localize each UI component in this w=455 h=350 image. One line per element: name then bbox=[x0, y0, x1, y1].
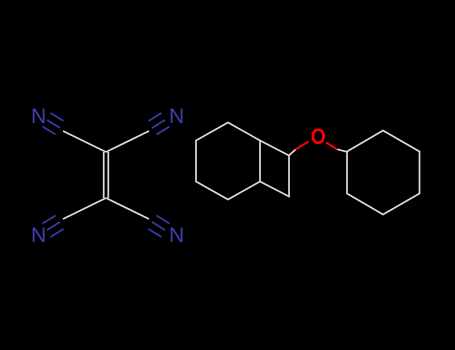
bond bridge-C to O (white half) bbox=[289, 150, 296, 156]
cyclohexane ring A bbox=[196, 123, 260, 200]
triple bond C#N lower-left bbox=[43, 216, 64, 238]
bond C1 to cyano carbon (upper-left) bbox=[63, 131, 106, 152]
bond C2 to cyano carbon (lower-right) bbox=[106, 198, 149, 219]
svg-text:N: N bbox=[169, 223, 184, 247]
bond C2 to cyano carbon (lower-left) bbox=[63, 198, 106, 219]
cyclohexane ring C bbox=[347, 131, 420, 215]
svg-text:N: N bbox=[31, 104, 46, 128]
bond C1 to cyano carbon (upper-right) bbox=[106, 131, 149, 152]
triple bond C#N upper-right bbox=[149, 113, 170, 135]
triple bond C#N lower-right bbox=[149, 216, 170, 238]
bond bridge-C to O (red half at O) bbox=[296, 142, 309, 150]
triple bond C#N upper-left bbox=[43, 113, 64, 135]
svg-text:N: N bbox=[31, 223, 46, 247]
bond O to ring C (white half) bbox=[337, 149, 347, 152]
svg-text:O: O bbox=[311, 124, 326, 149]
svg-text:N: N bbox=[169, 104, 184, 128]
bond O to ring C (red half at O) bbox=[326, 143, 337, 150]
TCNE central C=C double bond bbox=[104, 152, 109, 198]
bicyclo bridge (parallelogram) bbox=[260, 141, 289, 197]
